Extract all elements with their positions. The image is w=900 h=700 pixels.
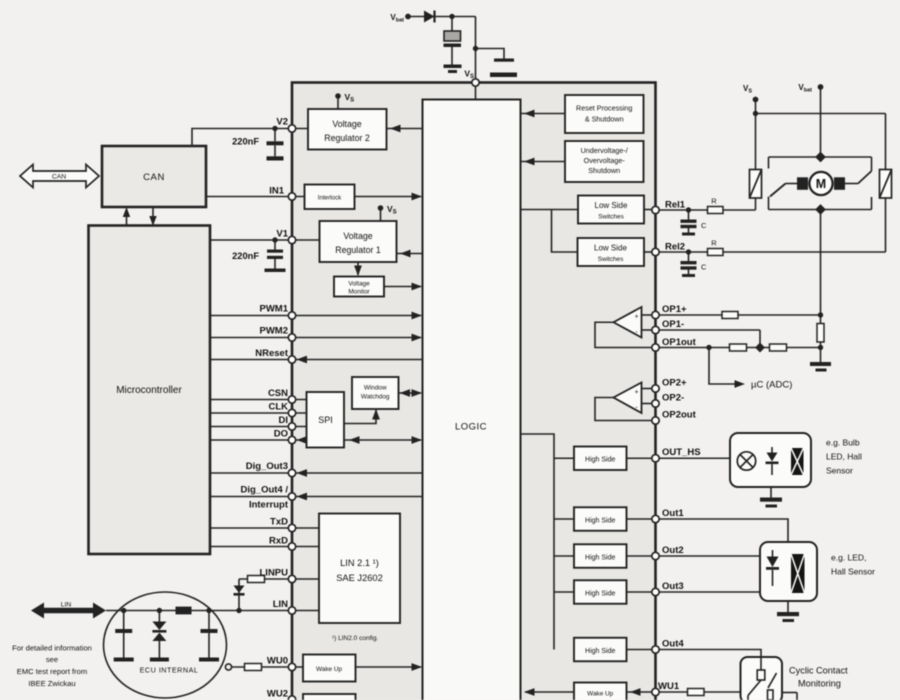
svg-text:SPI: SPI	[318, 415, 333, 425]
svg-text:High Side: High Side	[585, 517, 615, 524]
svg-text:Voltage: Voltage	[343, 231, 372, 241]
svg-text:µC (ADC): µC (ADC)	[751, 380, 792, 391]
svg-text:RxD: RxD	[269, 536, 288, 547]
svg-text:LIN: LIN	[273, 599, 288, 610]
svg-text:Regulator 1: Regulator 1	[335, 245, 381, 255]
svg-text:EMC test report from: EMC test report from	[17, 667, 87, 676]
svg-text:Switches: Switches	[598, 214, 624, 221]
svg-text:Rel1: Rel1	[665, 200, 686, 211]
svg-text:Switches: Switches	[598, 256, 624, 263]
svg-text:CLK: CLK	[268, 402, 288, 413]
svg-text:Watchdog: Watchdog	[361, 394, 390, 401]
svg-text:Wake Up: Wake Up	[587, 691, 613, 698]
svg-text:For detailed information: For detailed information	[12, 644, 92, 653]
svg-text:OP1+: OP1+	[662, 304, 687, 315]
svg-text:Out3: Out3	[662, 581, 684, 592]
svg-text:Wake Up: Wake Up	[316, 666, 342, 673]
svg-text:Hall Sensor: Hall Sensor	[831, 567, 875, 577]
svg-text:LED, Hall: LED, Hall	[826, 452, 862, 462]
svg-text:V2: V2	[276, 117, 288, 128]
svg-text:High Side: High Side	[585, 554, 615, 561]
svg-text:Voltage: Voltage	[332, 119, 361, 129]
svg-text:C: C	[701, 263, 707, 272]
svg-text:ECU INTERNAL: ECU INTERNAL	[140, 666, 199, 675]
svg-text:+: +	[634, 314, 638, 321]
svg-text:220nF: 220nF	[232, 251, 259, 261]
svg-text:& Shutdown: & Shutdown	[585, 115, 624, 124]
svg-text:Window: Window	[364, 385, 387, 392]
svg-text:High Side: High Side	[585, 457, 615, 464]
svg-text:¹) LIN2.0 config.: ¹) LIN2.0 config.	[332, 635, 378, 642]
svg-text:Voltage: Voltage	[348, 281, 370, 288]
svg-text:High Side: High Side	[585, 648, 615, 655]
svg-text:Sensor: Sensor	[826, 466, 853, 476]
svg-text:V1: V1	[276, 229, 288, 240]
svg-text:C: C	[701, 221, 707, 230]
svg-text:Interrupt: Interrupt	[249, 500, 289, 511]
svg-text:Interlock: Interlock	[318, 195, 342, 202]
svg-text:LIN 2.1 ¹): LIN 2.1 ¹)	[340, 558, 379, 568]
svg-text:High Side: High Side	[585, 590, 615, 597]
svg-text:Low Side: Low Side	[594, 244, 627, 253]
svg-text:Out4: Out4	[662, 639, 684, 650]
svg-text:SAE J2602: SAE J2602	[336, 573, 383, 583]
svg-text:Out1: Out1	[662, 508, 684, 519]
svg-text:OP1out: OP1out	[662, 337, 697, 348]
svg-text:IN1: IN1	[269, 186, 285, 197]
svg-text:PWM2: PWM2	[260, 326, 289, 337]
svg-text:OUT_HS: OUT_HS	[662, 447, 701, 458]
svg-text:WU1: WU1	[658, 681, 680, 692]
svg-text:DO: DO	[274, 429, 288, 440]
svg-text:R: R	[711, 239, 717, 248]
svg-text:Overvoltage-: Overvoltage-	[584, 156, 626, 165]
svg-text:Monitoring: Monitoring	[798, 679, 841, 689]
svg-text:OP2out: OP2out	[662, 410, 697, 421]
svg-text:PWM1: PWM1	[260, 304, 289, 315]
svg-text:LINPU: LINPU	[260, 568, 289, 579]
svg-text:see: see	[46, 655, 58, 664]
svg-text:M: M	[816, 177, 826, 191]
svg-text:OP2+: OP2+	[662, 378, 687, 389]
svg-text:NReset: NReset	[255, 348, 289, 359]
svg-text:Monitor: Monitor	[348, 289, 370, 296]
svg-text:220nF: 220nF	[232, 137, 259, 147]
svg-text:Microcontroller: Microcontroller	[116, 385, 182, 396]
svg-text:OP2-: OP2-	[662, 393, 684, 404]
svg-text:e.g. Bulb: e.g. Bulb	[826, 438, 860, 448]
svg-text:Undervoltage-/: Undervoltage-/	[581, 146, 628, 155]
svg-text:OP1-: OP1-	[662, 319, 684, 330]
svg-text:Cyclic Contact: Cyclic Contact	[789, 666, 848, 676]
svg-text:Low Side: Low Side	[595, 201, 628, 210]
svg-text:DI: DI	[279, 415, 289, 426]
svg-text:+: +	[634, 389, 638, 396]
svg-text:WU0: WU0	[267, 656, 288, 667]
svg-text:Regulator 2: Regulator 2	[324, 133, 370, 143]
svg-text:Shutdown: Shutdown	[588, 166, 620, 175]
svg-text:CAN: CAN	[143, 172, 165, 183]
svg-text:R: R	[711, 197, 717, 206]
svg-text:CAN: CAN	[52, 174, 66, 181]
svg-text:TxD: TxD	[270, 517, 288, 528]
svg-text:Rel2: Rel2	[665, 242, 685, 253]
svg-text:LIN: LIN	[61, 602, 72, 609]
svg-text:IBEE Zwickau: IBEE Zwickau	[28, 679, 75, 688]
svg-text:LOGIC: LOGIC	[455, 422, 487, 433]
svg-text:Dig_Out4 /: Dig_Out4 /	[240, 485, 288, 496]
svg-text:CSN: CSN	[268, 388, 288, 399]
svg-text:WU2: WU2	[267, 689, 288, 700]
svg-text:e.g. LED,: e.g. LED,	[831, 553, 866, 563]
svg-text:Out2: Out2	[662, 545, 684, 556]
svg-text:Dig_Out3: Dig_Out3	[246, 461, 288, 472]
svg-text:Reset Processing: Reset Processing	[576, 104, 632, 113]
